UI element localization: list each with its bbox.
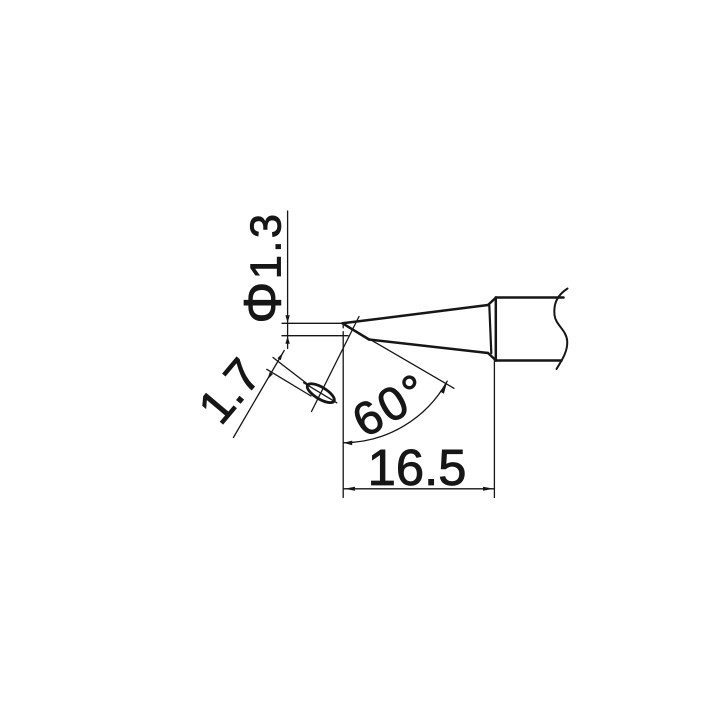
- extension line upper (tip level): [282, 322, 343, 324]
- label 60 degrees: [350, 373, 428, 437]
- break squiggle line: [554, 289, 567, 370]
- extension line lower (bevel level): [282, 335, 348, 337]
- tip outline top edge: [343, 305, 489, 323]
- arrow arc bottom (points left): [344, 441, 353, 446]
- arrow dia top (points down): [285, 315, 289, 323]
- 1.7 extension line upper: [273, 358, 308, 385]
- tip outline bottom edge: [369, 340, 488, 354]
- cylinder top line: [496, 296, 564, 299]
- label dia 1.3: [244, 216, 281, 321]
- 16.5 dimension line: [344, 488, 494, 490]
- label 16.5: [372, 449, 465, 485]
- arrow 16.5 left: [344, 487, 355, 491]
- shoulder top chamfer: [488, 298, 496, 306]
- tip bevel face edge: [343, 323, 370, 339]
- arrow 1.7 lower (points down-left): [268, 372, 273, 379]
- cylinder bottom line: [496, 359, 562, 362]
- ellipse major axis line: [304, 383, 337, 403]
- right vertical extension line: [493, 361, 495, 498]
- vertical extension line from tip: [342, 323, 344, 497]
- arrow dia bottom (points up): [285, 336, 289, 344]
- cylinder face edge: [495, 298, 498, 361]
- label 1.7: [198, 357, 262, 424]
- arrow 16.5 right: [483, 487, 494, 491]
- 60 degree ray: [343, 323, 455, 388]
- arrow 1.7 upper (points up-right): [277, 353, 283, 361]
- bevel face ellipse: [305, 380, 337, 406]
- shoulder bottom chamfer: [488, 353, 496, 361]
- cone base edge: [489, 305, 491, 353]
- angle arc: [343, 381, 447, 443]
- projection axis line through ellipse: [312, 317, 360, 412]
- 1.7 extension line lower: [267, 369, 311, 396]
- 1.7 dimension line: [233, 351, 284, 438]
- arrow arc top (points up-right): [440, 383, 447, 394]
- dia dimension line: [287, 211, 289, 349]
